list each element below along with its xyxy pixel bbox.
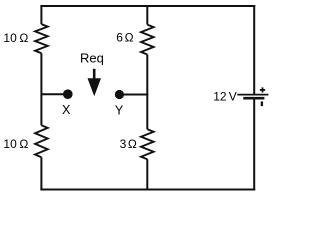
wire stub to node Y [123,94,149,96]
battery V1 top plate (positive, long thin) [237,94,268,96]
wire stub to node X [41,93,64,95]
wire right upper [253,5,255,94]
resistor 3ohm zigzag [141,129,154,159]
resistor 10ohm bottom-left zigzag [35,125,48,157]
Req arrow head [88,78,102,96]
wire left lower [40,157,42,190]
wire left middle [40,53,42,125]
Req arrow shaft [93,69,96,81]
battery plus polarity mark [260,87,265,92]
svg-text:10Ω: 10Ω [3,31,28,45]
wire top [40,5,255,7]
svg-text:X: X [62,103,71,117]
battery V1 bottom plate (negative, short thick) [243,97,264,100]
resistor 10ohm top-left zigzag [35,24,48,53]
wire left upper [40,5,42,24]
svg-text:3Ω: 3Ω [120,137,137,151]
wire middle lower [146,159,148,190]
battery minus polarity mark [261,101,263,106]
node Y terminal dot [115,90,124,99]
node X terminal dot [63,89,73,99]
resistor 6ohm zigzag [141,25,154,55]
svg-text:12V: 12V [213,89,237,103]
svg-text:10Ω: 10Ω [3,137,28,151]
svg-text:Req: Req [80,51,104,66]
wire middle center [146,55,148,130]
wire bottom [40,189,255,191]
svg-text:Y: Y [115,104,124,118]
wire middle upper [146,5,148,25]
svg-text:6Ω: 6Ω [116,31,133,45]
wire right lower [253,99,255,191]
